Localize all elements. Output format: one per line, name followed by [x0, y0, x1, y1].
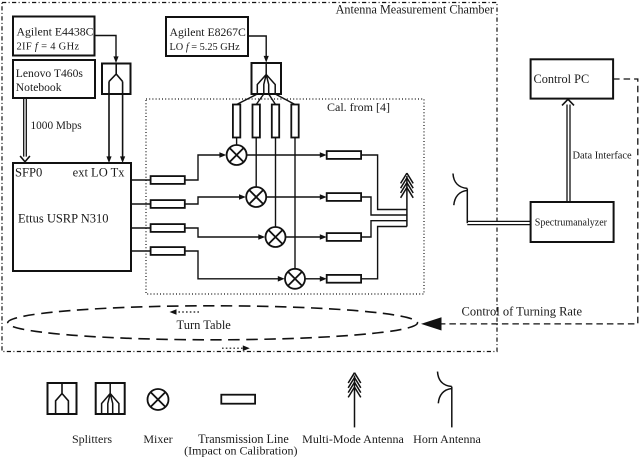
left transmission line L2 [151, 200, 185, 208]
wire USRP ch3 to left TL [131, 227, 151, 229]
transmission line TL2 (vertical) [253, 105, 260, 138]
svg-text:Data Interface: Data Interface [573, 150, 633, 161]
splitter SP1 (2-way) [102, 64, 131, 95]
USRP box Ettus N310 [13, 163, 131, 271]
svg-text:Multi-Mode Antenna: Multi-Mode Antenna [302, 432, 404, 446]
wire M1 output to right TL [247, 154, 321, 156]
svg-text:Antenna Measurement Chamber: Antenna Measurement Chamber [336, 2, 494, 16]
multi-mode antenna (transmit) [401, 173, 414, 226]
wire M2 output to right TL [266, 196, 320, 198]
svg-text:SFP0: SFP0 [15, 166, 42, 180]
svg-text:Agilent E4438C: Agilent E4438C [17, 25, 94, 39]
transmission line TL4 (vertical) [291, 105, 298, 138]
control arrowhead (filled, pointing left) [421, 317, 442, 330]
svg-text:LO f = 5.25 GHz: LO f = 5.25 GHz [170, 42, 241, 53]
bundle wire 2 to antenna [361, 197, 407, 215]
right transmission line R3 [327, 233, 361, 241]
chamber boundary (Antenna Measurement Chamber) [2, 3, 497, 352]
right transmission line R1 [327, 151, 361, 159]
legend transmission line [221, 395, 255, 404]
mixer M2 [246, 187, 266, 207]
svg-text:Notebook: Notebook [16, 81, 62, 94]
wire E4438C to splitter SP1 [95, 36, 117, 58]
generator Agilent E4438C [13, 17, 95, 56]
spectrum analyzer box [531, 202, 614, 242]
fan wires SP2 to transmission lines [237, 94, 295, 105]
double line horn to spectrum analyzer [467, 221, 530, 224]
svg-text:ext LO Tx: ext LO Tx [73, 166, 126, 180]
transmission line TL3 (vertical) [272, 105, 279, 138]
mixer M4 [285, 269, 305, 289]
control PC box [531, 59, 614, 98]
svg-text:Agilent E8267C: Agilent E8267C [170, 26, 246, 39]
generator Agilent E8267C [166, 17, 248, 56]
wire E8267C to splitter SP2 [248, 36, 266, 57]
svg-text:Horn Antenna: Horn Antenna [413, 432, 481, 446]
LO wire TL1 to mixer M1 [236, 138, 238, 146]
left transmission line L4 [151, 247, 185, 255]
legend horn antenna [438, 372, 452, 428]
arrowhead into SP2 [264, 56, 269, 63]
LO wire TL4 to mixer M4 [294, 138, 296, 269]
right transmission line R2 [327, 193, 361, 201]
legend splitter (2-way) [48, 383, 77, 414]
wire SP1 output ext LO to USRP [108, 82, 110, 158]
wire L2 to mixer M2 [185, 197, 240, 204]
svg-text:Ettus USRP N310: Ettus USRP N310 [18, 212, 109, 226]
bundle wire 3 to antenna [361, 221, 407, 237]
dashed control path Control PC to turn table [441, 79, 638, 324]
svg-text:(Impact on Calibration): (Impact on Calibration) [184, 444, 297, 458]
svg-text:Turn Table: Turn Table [177, 318, 232, 332]
splitter SP2 (4-way) [252, 63, 282, 94]
svg-text:Spectrumanalyzer: Spectrumanalyzer [535, 218, 608, 229]
data interface double line arrow [567, 105, 570, 203]
dotted rotation arrow right [222, 347, 245, 349]
svg-text:Splitters: Splitters [72, 432, 112, 446]
right transmission line R4 [327, 275, 361, 283]
wire USRP ch4 to left TL [131, 250, 151, 252]
svg-text:Control PC: Control PC [534, 72, 590, 86]
arrowhead into SP1 [113, 56, 118, 63]
svg-text:2IF f = 4 GHz: 2IF f = 4 GHz [17, 42, 80, 53]
LO wire TL3 to mixer M3 [275, 138, 277, 228]
wire M3 output to right TL [286, 236, 321, 238]
left transmission line L3 [151, 224, 185, 232]
wire L3 to mixer M3 [185, 228, 259, 237]
wire L4 to mixer M4 [185, 251, 279, 279]
svg-text:Control of Turning Rate: Control of Turning Rate [462, 305, 583, 319]
svg-text:Lenovo T460s: Lenovo T460s [16, 67, 84, 80]
svg-text:1000 Mbps: 1000 Mbps [31, 120, 82, 132]
ethernet link 1000 Mbps (double line) [24, 98, 27, 157]
wire SP1 output Tx to USRP [122, 82, 124, 158]
legend splitter (4-way) [96, 383, 125, 414]
wire USRP ch1 to left TL [131, 179, 151, 181]
mixer M3 [266, 227, 286, 247]
notebook Lenovo T460s [13, 60, 95, 98]
bundle wire 1 to antenna [361, 155, 407, 210]
horn antenna (receive) [453, 174, 467, 224]
left transmission line L1 [151, 176, 185, 184]
transmission line TL1 (vertical) [233, 105, 240, 138]
svg-text:Cal. from [4]: Cal. from [4] [327, 100, 390, 114]
calibration dotted box Cal. from [4] [146, 99, 424, 294]
legend multi-mode antenna [348, 373, 361, 428]
svg-text:Mixer: Mixer [143, 432, 172, 446]
bundle wire 4 to antenna [361, 227, 407, 279]
wire M4 output to right TL [305, 278, 320, 280]
LO wire TL2 to mixer M2 [255, 138, 257, 188]
mixer M1 [227, 145, 247, 165]
wire USRP ch2 to left TL [131, 203, 151, 205]
legend mixer [148, 389, 169, 410]
wire L1 to mixer M1 [185, 155, 220, 180]
dotted rotation arrow left [174, 311, 199, 313]
turn table dashed ellipse [8, 306, 418, 340]
